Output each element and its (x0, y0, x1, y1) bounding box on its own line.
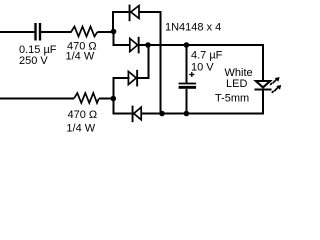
node A junction dot (111, 29, 117, 35)
wire D4 row left (113, 113, 132, 115)
wire D2 cathode to plus node (140, 44, 148, 46)
svg-text:LED: LED (226, 78, 247, 90)
wire node A up to D1 (112, 11, 114, 32)
svg-text:1/4 W: 1/4 W (66, 122, 95, 134)
wire LED branch lower (262, 89, 264, 114)
capacitor C2 4.7uF electrolytic plates (179, 83, 197, 89)
svg-text:250 V: 250 V (19, 55, 48, 67)
node B junction dot (111, 96, 117, 102)
wire cap branch upper (185, 45, 187, 83)
svg-text:T-5mm: T-5mm (215, 92, 249, 104)
LED D5 triangle (256, 81, 270, 87)
wire D3 cathode right then up (138, 77, 149, 79)
wire top input (0, 31, 35, 33)
LED cathode bar (255, 88, 272, 90)
node minus junction dot (159, 111, 165, 117)
wire D4 anode to minus node (141, 113, 162, 115)
wire bottom input (0, 98, 74, 100)
capacitor C1 0.15uF plates (34, 23, 41, 41)
diode D3 anode-left (128, 70, 138, 87)
svg-text:470 Ω: 470 Ω (68, 109, 98, 121)
wire node A down to D2 (113, 32, 115, 46)
wire resistor R2 to node B (99, 98, 114, 100)
diode D1 cathode-left (129, 5, 139, 22)
svg-text:1/4 W: 1/4 W (66, 51, 95, 63)
wire cap branch lower (185, 89, 187, 114)
svg-text:1N4148 x 4: 1N4148 x 4 (165, 22, 221, 34)
wire resistor to node A (97, 31, 114, 33)
plus rail to LED branch (148, 44, 263, 46)
minus rail to LED branch (162, 113, 263, 115)
svg-text:10 V: 10 V (191, 62, 214, 74)
LED light arrow lower (272, 85, 281, 93)
node plus junction dot (145, 42, 151, 48)
svg-text:White: White (225, 67, 253, 79)
junction dot cap top (184, 42, 190, 48)
wire D3 row (113, 77, 130, 79)
resistor R2 470ohm zigzag (74, 93, 99, 103)
diode D4 cathode-left (132, 106, 142, 123)
resistor R1 470ohm zigzag (71, 27, 97, 37)
wire D2 row left (113, 44, 131, 46)
LED light arrow upper (270, 77, 279, 85)
wire long vertical D1 anode down to minus rail (160, 12, 162, 114)
wire plus node down to D3 (147, 45, 149, 79)
junction dot cap bottom (184, 111, 190, 117)
svg-text:4.7 µF: 4.7 µF (191, 50, 223, 62)
wire D1 anode right (139, 11, 162, 13)
wire D1 row left (112, 11, 129, 13)
diode D2 anode-left (130, 37, 140, 54)
wire left vertical D3 to D4 through node B (112, 77, 114, 115)
wire cap to resistor (41, 31, 71, 33)
plus polarity mark (189, 72, 194, 77)
wire LED branch upper (262, 44, 264, 81)
